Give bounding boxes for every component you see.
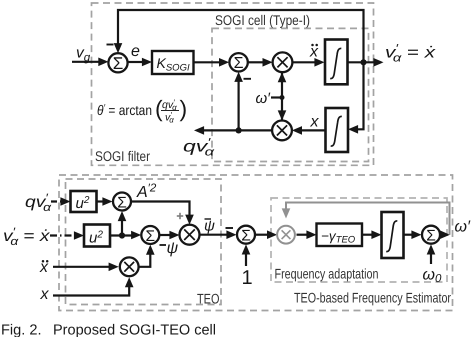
- svg-text:): ): [180, 96, 188, 122]
- arrowhead into S2: [219, 58, 229, 67]
- arrowhead 1 up into S5: [242, 244, 251, 254]
- wire omega0 into S6: [430, 251, 432, 264]
- wire x input to M5 bottom: [53, 284, 129, 296]
- svg-text:qv′α: qv′α: [183, 137, 215, 159]
- arrowhead vg into S1: [98, 58, 108, 67]
- SOGI filter dashed box: [92, 3, 374, 165]
- sum S1: [108, 53, 127, 72]
- junction node qv': [236, 127, 242, 133]
- svg-text:SOGI cell (Type-I): SOGI cell (Type-I): [215, 12, 310, 28]
- arrowhead omega' up into M1: [278, 72, 287, 82]
- svg-text:e: e: [131, 43, 140, 60]
- junction node on u2b line: [119, 232, 125, 238]
- svg-text:Frequency adaptation: Frequency adaptation: [275, 266, 379, 282]
- wire KSOGI to S2: [194, 61, 222, 63]
- label minus psi: [160, 244, 167, 246]
- arrowhead into integrator3: [371, 230, 381, 239]
- svg-text:Σ: Σ: [146, 228, 156, 245]
- arrowhead up into S3: [118, 211, 127, 221]
- svg-text:Σ: Σ: [241, 228, 251, 245]
- arrowhead qv' output left: [194, 126, 204, 135]
- wire u2a to S3: [97, 200, 107, 202]
- arrowhead into S6: [411, 230, 421, 239]
- arrowhead xddot into M5: [109, 263, 119, 272]
- svg-text:Σ: Σ: [113, 54, 124, 73]
- wire u2b to S4: [110, 234, 134, 236]
- arrowhead x up into M5: [125, 277, 134, 287]
- svg-text:x: x: [310, 114, 320, 131]
- wire A'2 from S3 to M4 top: [132, 202, 190, 217]
- KSOGI box: [152, 51, 194, 74]
- wire omega' coupling M1-M2: [281, 70, 283, 122]
- minus sign at S1: [107, 44, 114, 46]
- wire top feedback from output trunk to sum S1: [118, 10, 364, 62]
- label psibar: [204, 218, 215, 235]
- arrowhead omega' out: [440, 230, 450, 239]
- label xddot input: [39, 259, 49, 276]
- svg-text:Fig. 2.: Fig. 2.: [1, 323, 42, 337]
- arrowhead M5 up into S4: [146, 245, 155, 255]
- sum S6: [422, 226, 440, 244]
- svg-text:Σ: Σ: [117, 194, 127, 211]
- svg-text:x: x: [309, 44, 319, 61]
- sum S3: [113, 193, 131, 211]
- TEO-based Frequency Estimator dashed box: [59, 175, 453, 311]
- svg-text:TEO: TEO: [197, 290, 220, 306]
- wire va' input dash-dot: [50, 234, 77, 236]
- label xddot top: [309, 44, 319, 61]
- wire omega' tick: [271, 96, 282, 98]
- integrator1 box: [325, 40, 348, 85]
- gray arrowhead down into M6: [282, 208, 291, 218]
- arrowhead into S5: [226, 230, 236, 239]
- wire gTEO to integrator3: [362, 234, 374, 236]
- Frequency adaptation dashed box: [271, 198, 447, 282]
- arrowhead into M6: [267, 230, 277, 239]
- svg-text:v′α = ẋ: v′α = ẋ: [3, 227, 51, 249]
- wire S1 to KSOGI: [128, 61, 143, 63]
- multiplier M2: [272, 120, 292, 140]
- arrowhead integrator2 to M2: [292, 126, 302, 135]
- svg-text:x: x: [40, 286, 50, 303]
- wire M6 to gTEO box: [297, 234, 310, 236]
- wire S4 to M4: [160, 234, 171, 236]
- integrator3 box: [382, 212, 404, 258]
- wire integrator1 output to va': [348, 61, 377, 63]
- wire qv' output: [201, 129, 272, 131]
- minus tick before S5: [226, 227, 234, 229]
- svg-text:1: 1: [242, 267, 253, 289]
- integrator2 box: [326, 108, 349, 152]
- sum S2: [229, 53, 247, 71]
- wire vg input: [72, 61, 99, 63]
- svg-text:θ′ = arctan: θ′ = arctan: [97, 102, 152, 118]
- wire trunk down to integrator2: [351, 62, 364, 129]
- wire 1 into S5: [245, 251, 247, 266]
- gray feedback wire omega' to M6: [286, 203, 450, 235]
- arrowhead into integrator1: [314, 58, 324, 67]
- wire integrator2 to M2: [300, 129, 326, 131]
- svg-text:Σ: Σ: [426, 228, 436, 245]
- arrowhead qv' into u2a: [60, 197, 70, 206]
- wire xddot input to M5: [53, 266, 112, 268]
- svg-text:v′α = ẋ: v′α = ẋ: [385, 43, 436, 65]
- arrowhead into S1 top: [114, 43, 123, 53]
- gTEO box: [317, 224, 363, 247]
- u2b box: [84, 225, 110, 247]
- wire S2 minus input: [238, 78, 240, 130]
- svg-text:SOGI filter: SOGI filter: [95, 148, 150, 164]
- svg-text:Σ: Σ: [234, 55, 244, 72]
- plus sign gray at M4 top input: [177, 213, 183, 219]
- wire S2 to M1: [248, 61, 264, 63]
- svg-text:ω′: ω′: [256, 90, 272, 107]
- u2a box: [71, 191, 97, 212]
- sum S4: [141, 226, 159, 244]
- svg-text:ψ: ψ: [167, 240, 179, 257]
- svg-text:ω′: ω′: [455, 219, 471, 236]
- arrowhead omega0 up into S6: [427, 244, 436, 254]
- minus sign at S2: [244, 78, 252, 80]
- junction node omega tick: [280, 95, 285, 100]
- svg-text:ψ: ψ: [204, 218, 215, 235]
- SOGI cell (Type-I) dashed box: [212, 28, 369, 161]
- multiplier M5: [120, 257, 139, 276]
- arrowhead va' into u2b: [74, 231, 84, 240]
- arrowhead into S4: [131, 231, 141, 240]
- arrowhead into integrator2: [348, 125, 358, 134]
- theta formula: [97, 96, 187, 125]
- TEO dashed box: [66, 179, 222, 305]
- multiplier M6 gray: [277, 226, 295, 244]
- wire S3 bottom input: [121, 217, 123, 236]
- arrowhead omega' down into M2: [278, 110, 287, 120]
- wire M4 to S5: [200, 234, 231, 236]
- arrowhead A'2 down into M4: [185, 215, 194, 225]
- arrowhead into M4: [169, 231, 179, 240]
- svg-text:Proposed SOGI-TEO cell: Proposed SOGI-TEO cell: [53, 323, 216, 337]
- arrowhead into gTEO box: [306, 230, 316, 239]
- svg-text:qv′α: qv′α: [25, 193, 52, 215]
- wire integrator3 to S6: [404, 234, 415, 236]
- wire M5 to S4 bottom: [138, 252, 151, 267]
- multiplier M1: [273, 52, 293, 72]
- svg-text:TEO-based Frequency Estimator: TEO-based Frequency Estimator: [294, 290, 451, 306]
- arrowhead into M1: [263, 58, 273, 67]
- wire S6 to omega' out: [441, 234, 444, 236]
- arrowhead output va': [373, 58, 383, 67]
- sum S5: [237, 226, 255, 244]
- wire qv' input dashed: [51, 200, 63, 202]
- arrowhead into S3: [102, 197, 112, 206]
- arrowhead up into S2: [234, 72, 243, 82]
- multiplier M4: [180, 225, 200, 245]
- arrowhead into KSOGI: [142, 58, 152, 67]
- junction node output: [360, 59, 366, 65]
- wire S5 to M6: [256, 234, 269, 236]
- wire M1 to integrator1: [293, 61, 317, 63]
